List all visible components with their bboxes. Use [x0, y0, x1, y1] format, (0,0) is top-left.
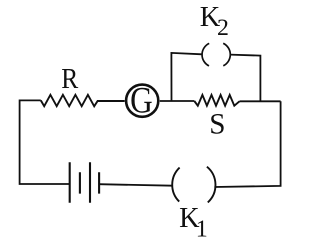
svg-text:S: S — [209, 108, 225, 140]
svg-text:2: 2 — [217, 15, 229, 41]
svg-text:G: G — [130, 81, 153, 122]
svg-text:R: R — [61, 63, 79, 95]
svg-text:1: 1 — [196, 216, 208, 242]
